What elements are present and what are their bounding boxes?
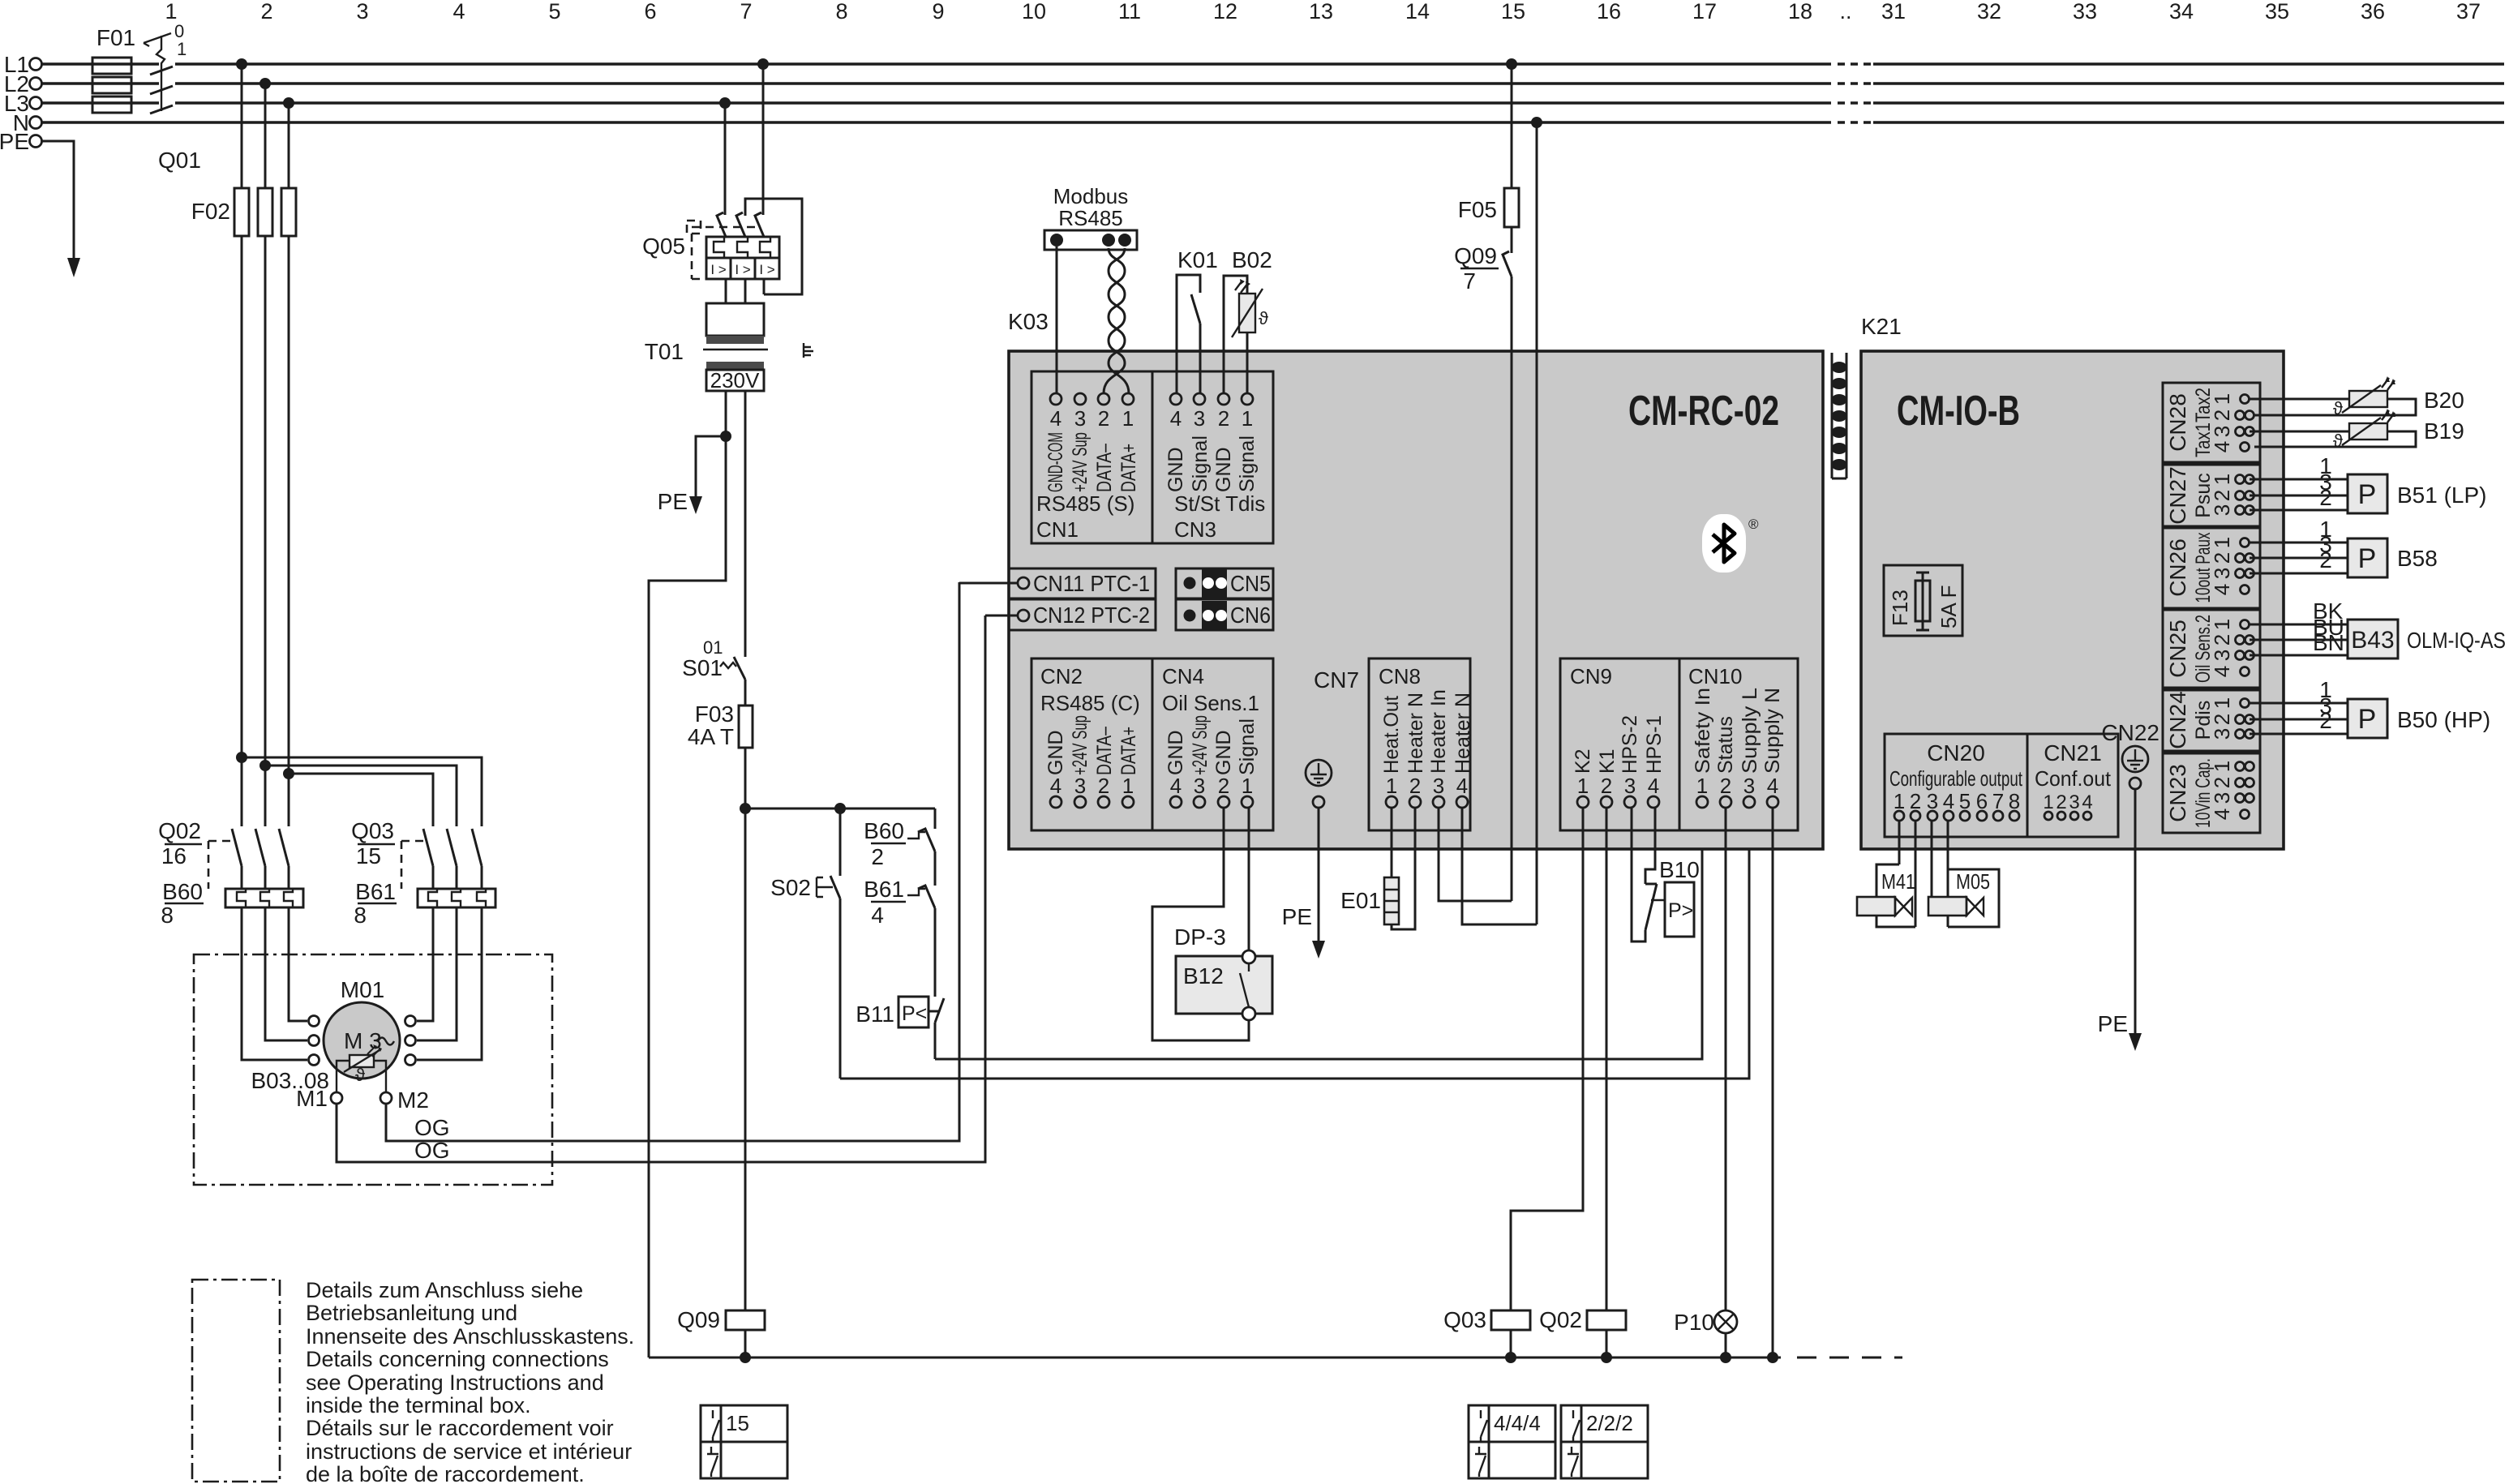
node control junction bbox=[740, 803, 935, 814]
svg-text:Conf.out: Conf.out bbox=[2035, 766, 2112, 791]
dash-dot enclosure around motor bbox=[194, 954, 552, 1185]
svg-text:Supply L: Supply L bbox=[1739, 688, 1761, 774]
svg-text:inside the terminal box.: inside the terminal box. bbox=[306, 1393, 531, 1418]
svg-text:OG: OG bbox=[414, 1138, 450, 1163]
svg-text:M1: M1 bbox=[296, 1086, 328, 1111]
svg-text:GND-COM: GND-COM bbox=[1044, 432, 1067, 492]
svg-text:3: 3 bbox=[1743, 774, 1755, 798]
svg-text:CN28: CN28 bbox=[2165, 393, 2190, 452]
svg-text:Q03: Q03 bbox=[1443, 1307, 1486, 1332]
contactor Q02 main contacts bbox=[158, 818, 289, 889]
svg-text:F03: F03 bbox=[695, 701, 734, 727]
svg-text:35: 35 bbox=[2265, 0, 2289, 24]
svg-text:BN: BN bbox=[2313, 630, 2344, 655]
svg-text:3: 3 bbox=[2210, 728, 2234, 740]
valve M05 bbox=[1928, 821, 1999, 927]
lamp P10 bbox=[1674, 808, 1737, 1363]
svg-text:P<: P< bbox=[902, 1002, 927, 1025]
connector CN20 bbox=[1885, 734, 2027, 837]
svg-text:DATA–: DATA– bbox=[1093, 727, 1116, 775]
svg-text:2/2/2: 2/2/2 bbox=[1586, 1411, 1633, 1435]
svg-text:GND: GND bbox=[1044, 730, 1067, 775]
svg-text:1: 1 bbox=[2043, 791, 2053, 813]
svg-text:Signal: Signal bbox=[1236, 435, 1259, 492]
svg-text:P>: P> bbox=[1668, 899, 1693, 922]
svg-text:CN27: CN27 bbox=[2165, 466, 2190, 525]
svg-text:OLM-IQ-AS: OLM-IQ-AS bbox=[2407, 628, 2506, 653]
svg-text:6: 6 bbox=[644, 0, 656, 24]
svg-text:4: 4 bbox=[2210, 584, 2234, 595]
svg-text:4: 4 bbox=[1767, 774, 1778, 798]
wire PE stub with earth arrow bbox=[42, 141, 80, 277]
svg-text:2: 2 bbox=[2056, 791, 2066, 813]
svg-text:RS485 (S): RS485 (S) bbox=[1036, 491, 1134, 516]
connector CN28 bbox=[2163, 383, 2260, 462]
svg-text:1: 1 bbox=[2210, 474, 2234, 485]
svg-text:34: 34 bbox=[2169, 0, 2194, 24]
svg-text:CM-IO-B: CM-IO-B bbox=[1897, 388, 2020, 435]
svg-text:HPS-2: HPS-2 bbox=[1619, 715, 1641, 774]
svg-text:2: 2 bbox=[1098, 406, 1109, 431]
svg-text:Q09: Q09 bbox=[677, 1307, 720, 1332]
aux contact table Q02 bbox=[1561, 1405, 1648, 1478]
svg-text:2: 2 bbox=[2210, 777, 2234, 788]
svg-text:+24V Sup: +24V Sup bbox=[1189, 715, 1212, 775]
wire S02 to Supply L bbox=[840, 808, 1749, 1079]
svg-text:+24V Sup: +24V Sup bbox=[1069, 715, 1092, 775]
svg-text:F02: F02 bbox=[191, 199, 230, 224]
svg-text:2: 2 bbox=[1218, 774, 1229, 798]
svg-text:1: 1 bbox=[1577, 774, 1589, 798]
node L1 tap to Q05 bbox=[757, 58, 769, 215]
contact B60/2 bbox=[864, 808, 935, 886]
svg-text:15: 15 bbox=[356, 843, 381, 869]
svg-text:4: 4 bbox=[1050, 406, 1061, 431]
svg-text:DATA+: DATA+ bbox=[1117, 727, 1140, 775]
contact B61/4 bbox=[864, 877, 935, 997]
svg-text:GND: GND bbox=[1212, 730, 1235, 775]
sensor B43 OLM-IQ-AS bbox=[2250, 598, 2506, 658]
svg-text:33: 33 bbox=[2073, 0, 2097, 24]
wire OG (M2 to CN11) bbox=[386, 582, 959, 1141]
svg-text:11: 11 bbox=[1118, 0, 1141, 24]
wire Modbus pin to CN1-4 bbox=[1056, 247, 1058, 393]
sensor B20 bbox=[2250, 376, 2464, 418]
svg-text:2: 2 bbox=[2319, 708, 2332, 733]
connector CN22 earth bbox=[2101, 720, 2159, 789]
svg-text:2: 2 bbox=[2210, 410, 2234, 421]
svg-text:GND: GND bbox=[1164, 447, 1187, 492]
jumper CN5 bbox=[1176, 568, 1273, 629]
bottom control rail bbox=[649, 1357, 1902, 1359]
node L2 tap to F02 bbox=[259, 78, 271, 188]
svg-text:18: 18 bbox=[1788, 0, 1812, 24]
svg-text:Betriebsanleitung und: Betriebsanleitung und bbox=[306, 1301, 517, 1325]
svg-text:B61: B61 bbox=[355, 879, 396, 904]
wire CN7 to PE bbox=[1282, 808, 1325, 959]
connector CN21 bbox=[2027, 734, 2118, 837]
svg-text:CN1: CN1 bbox=[1036, 517, 1079, 542]
svg-text:4: 4 bbox=[1170, 774, 1182, 798]
svg-text:ϑ: ϑ bbox=[2333, 431, 2343, 451]
aux contact table Q09 bbox=[701, 1405, 787, 1478]
svg-text:P: P bbox=[2358, 479, 2377, 510]
svg-text:I >: I > bbox=[710, 262, 726, 277]
wire Q02 to motor terminals bbox=[242, 907, 307, 1060]
svg-text:1: 1 bbox=[165, 0, 177, 24]
svg-text:B12: B12 bbox=[1183, 963, 1224, 989]
svg-text:32: 32 bbox=[1977, 0, 2001, 24]
svg-text:3: 3 bbox=[1194, 774, 1205, 798]
terminal L1 bbox=[4, 52, 42, 77]
svg-text:Details concerning connections: Details concerning connections bbox=[306, 1347, 609, 1371]
svg-text:3: 3 bbox=[2210, 792, 2234, 804]
ribbon cable K21 bbox=[1832, 314, 1902, 478]
svg-text:K03: K03 bbox=[1008, 309, 1049, 334]
svg-text:instructions de service et int: instructions de service et intérieur bbox=[306, 1439, 632, 1464]
svg-text:6: 6 bbox=[1976, 789, 1988, 813]
overload B61 (motor) bbox=[354, 879, 495, 928]
svg-text:8: 8 bbox=[161, 903, 174, 928]
svg-text:1: 1 bbox=[2210, 393, 2234, 405]
svg-text:P10: P10 bbox=[1674, 1310, 1714, 1335]
connector CN1 / CN3 bbox=[1031, 371, 1273, 543]
svg-text:K1: K1 bbox=[1596, 748, 1619, 774]
svg-text:DATA+: DATA+ bbox=[1117, 444, 1140, 492]
svg-text:F01: F01 bbox=[96, 25, 135, 50]
svg-text:K21: K21 bbox=[1861, 314, 1902, 339]
svg-text:2: 2 bbox=[2319, 485, 2332, 510]
contactor Q03 main contacts bbox=[351, 818, 482, 889]
svg-text:CN26: CN26 bbox=[2165, 538, 2190, 597]
svg-text:13: 13 bbox=[1309, 0, 1333, 24]
svg-text:4: 4 bbox=[1050, 774, 1061, 798]
terminal PE bbox=[0, 129, 42, 154]
svg-text:14: 14 bbox=[1405, 0, 1430, 24]
svg-text:see Operating Instructions and: see Operating Instructions and bbox=[306, 1370, 604, 1395]
svg-text:GND: GND bbox=[1164, 730, 1187, 775]
svg-text:3: 3 bbox=[1074, 406, 1086, 431]
thermistor B03..08 inside motor bbox=[251, 1044, 386, 1093]
svg-text:B43: B43 bbox=[2351, 627, 2394, 654]
svg-text:4: 4 bbox=[1456, 774, 1468, 798]
svg-text:7: 7 bbox=[1463, 268, 1476, 294]
connector CN24 bbox=[2163, 690, 2260, 751]
connector CN25 bbox=[2163, 610, 2260, 688]
svg-text:CN9: CN9 bbox=[1570, 664, 1612, 688]
svg-text:ϑ: ϑ bbox=[355, 1065, 365, 1085]
svg-text:1: 1 bbox=[1386, 774, 1397, 798]
fuse F05 bbox=[1458, 188, 1519, 253]
svg-text:2: 2 bbox=[1601, 774, 1612, 798]
svg-text:8: 8 bbox=[835, 0, 847, 24]
svg-text:Status: Status bbox=[1714, 716, 1737, 774]
contact K01 bbox=[1177, 247, 1218, 393]
svg-text:4: 4 bbox=[2082, 791, 2092, 813]
svg-text:3: 3 bbox=[2069, 791, 2079, 813]
terminal N bbox=[13, 110, 42, 135]
node L3 tap to Q05 bbox=[719, 97, 731, 215]
svg-text:I >: I > bbox=[735, 262, 750, 277]
connector CN12 PTC-2 bbox=[985, 599, 1156, 630]
wire K2 to Q03 coil bbox=[1511, 808, 1583, 1310]
switch S02 bbox=[770, 808, 840, 1079]
svg-text:2: 2 bbox=[2210, 490, 2234, 501]
connector CN27 bbox=[2163, 465, 2260, 526]
fuse F02 (3x) bbox=[191, 188, 296, 826]
wire CN22 to PE bbox=[2098, 789, 2142, 1051]
svg-text:F13: F13 bbox=[1888, 590, 1912, 626]
svg-text:B50 (HP): B50 (HP) bbox=[2397, 707, 2490, 732]
svg-text:1: 1 bbox=[1696, 774, 1708, 798]
module CM-IO-B bbox=[1861, 351, 2284, 849]
svg-text:36: 36 bbox=[2361, 0, 2385, 24]
svg-text:CN22: CN22 bbox=[2101, 720, 2159, 745]
svg-text:B51 (LP): B51 (LP) bbox=[2397, 483, 2487, 508]
svg-text:17: 17 bbox=[1692, 0, 1717, 24]
svg-text:1: 1 bbox=[2210, 537, 2234, 548]
wire L2 branch to Q03 pole2 bbox=[259, 760, 457, 826]
svg-text:Q01: Q01 bbox=[158, 148, 201, 173]
svg-text:3: 3 bbox=[2210, 650, 2234, 661]
connector CN11 PTC-1 bbox=[959, 568, 1156, 598]
svg-text:CN24: CN24 bbox=[2165, 691, 2190, 749]
connector CN23 bbox=[2163, 753, 2260, 833]
svg-text:1: 1 bbox=[1122, 406, 1134, 431]
terminal L2 bbox=[4, 71, 42, 97]
wire safety chain to Safety In bbox=[935, 808, 1702, 1059]
coil Q09 bbox=[677, 1307, 765, 1363]
svg-text:Supply N: Supply N bbox=[1761, 688, 1784, 774]
svg-text:4: 4 bbox=[1943, 789, 1954, 813]
svg-text:M01: M01 bbox=[341, 977, 384, 1002]
svg-text:4A T: 4A T bbox=[688, 724, 734, 749]
transducer B51 (LP) bbox=[2250, 453, 2487, 513]
svg-text:2: 2 bbox=[1910, 789, 1921, 813]
svg-text:1: 1 bbox=[1242, 774, 1253, 798]
wire Q03 to motor terminals bbox=[417, 907, 482, 1060]
svg-text:P: P bbox=[2358, 543, 2377, 574]
svg-text:15: 15 bbox=[1501, 0, 1525, 24]
svg-text:3: 3 bbox=[1927, 789, 1938, 813]
switch S01 bbox=[682, 637, 745, 680]
svg-text:RS485: RS485 bbox=[1058, 206, 1123, 230]
connector CN9 / CN10 bbox=[1560, 658, 1798, 830]
svg-text:S01: S01 bbox=[682, 655, 723, 680]
svg-text:B58: B58 bbox=[2397, 546, 2438, 571]
column ruler numbers bbox=[165, 0, 2481, 24]
svg-text:2: 2 bbox=[1218, 406, 1229, 431]
svg-text:3: 3 bbox=[2210, 568, 2234, 579]
sensor B19 bbox=[2250, 409, 2464, 451]
svg-text:2: 2 bbox=[260, 0, 272, 24]
svg-text:M 3: M 3 bbox=[344, 1028, 382, 1053]
svg-text:ϑ: ϑ bbox=[1259, 308, 1268, 328]
svg-text:CN20: CN20 bbox=[1927, 740, 1985, 766]
svg-text:4: 4 bbox=[2210, 441, 2234, 452]
pressure switch B10 P> bbox=[1632, 808, 1700, 941]
svg-text:2: 2 bbox=[1409, 774, 1421, 798]
wire K1 to Q02 coil bbox=[1606, 808, 1608, 1310]
Bluetooth logo bbox=[1702, 514, 1759, 573]
fuse F03 4A T bbox=[688, 680, 753, 1310]
svg-text:DATA–: DATA– bbox=[1093, 444, 1116, 492]
terminal L3 bbox=[4, 91, 42, 116]
svg-text:B10: B10 bbox=[1659, 857, 1700, 882]
svg-text:St/St Tdis: St/St Tdis bbox=[1174, 491, 1265, 516]
svg-text:CN4: CN4 bbox=[1162, 664, 1204, 688]
svg-text:Configurable output: Configurable output bbox=[1889, 766, 2023, 791]
wire Supply N to rail bbox=[1767, 808, 1778, 1363]
coil Q03 bbox=[1443, 1307, 1530, 1363]
svg-text:5: 5 bbox=[548, 0, 560, 24]
svg-text:B60: B60 bbox=[162, 879, 203, 904]
svg-text:B20: B20 bbox=[2424, 388, 2464, 413]
svg-text:4: 4 bbox=[1648, 774, 1659, 798]
svg-text:Safety In: Safety In bbox=[1692, 688, 1714, 774]
svg-text:CN8: CN8 bbox=[1379, 664, 1421, 688]
jumper CN6 bbox=[1176, 599, 1273, 630]
wire L1 rail bbox=[42, 62, 2504, 66]
wire L3 rail bbox=[42, 101, 2504, 105]
wire Heater N loop bbox=[1462, 808, 1537, 924]
svg-text:1: 1 bbox=[1122, 774, 1134, 798]
svg-text:4: 4 bbox=[871, 903, 884, 928]
svg-text:9: 9 bbox=[932, 0, 944, 24]
svg-text:4: 4 bbox=[2210, 808, 2234, 820]
svg-text:3: 3 bbox=[1074, 774, 1086, 798]
connector Modbus RS485 bbox=[1044, 184, 1137, 250]
svg-text:230V: 230V bbox=[710, 368, 760, 392]
svg-text:Heater In: Heater In bbox=[1427, 689, 1450, 774]
fuse F01 bbox=[92, 25, 135, 113]
node L1 tap to F05 bbox=[1506, 58, 1517, 188]
svg-text:10: 10 bbox=[1022, 0, 1046, 24]
svg-text:1: 1 bbox=[2210, 697, 2234, 709]
svg-text:HPS-1: HPS-1 bbox=[1643, 715, 1666, 774]
svg-text:S02: S02 bbox=[770, 875, 811, 900]
svg-text:CM-RC-02: CM-RC-02 bbox=[1628, 388, 1779, 435]
svg-text:CN6: CN6 bbox=[1230, 603, 1271, 628]
svg-text:1: 1 bbox=[2210, 619, 2234, 630]
connector CN7 earth bbox=[1306, 667, 1359, 808]
svg-text:GND: GND bbox=[1212, 447, 1235, 492]
svg-text:16: 16 bbox=[161, 843, 187, 869]
svg-text:I >: I > bbox=[759, 262, 774, 277]
node L1 tap to F02 bbox=[236, 58, 247, 188]
svg-text:Details zum Anschluss siehe: Details zum Anschluss siehe bbox=[306, 1278, 583, 1302]
sensor DP-3 B12 bbox=[1152, 808, 1272, 1040]
svg-text:Heat.Out: Heat.Out bbox=[1380, 696, 1403, 774]
svg-text:ϑ: ϑ bbox=[2333, 398, 2343, 418]
svg-text:Q02: Q02 bbox=[1539, 1307, 1582, 1332]
svg-text:12: 12 bbox=[1213, 0, 1237, 24]
node N tap bbox=[1531, 117, 1542, 924]
svg-text:2: 2 bbox=[2210, 714, 2234, 725]
svg-text:de la boîte de raccordement.: de la boîte de raccordement. bbox=[306, 1462, 585, 1484]
svg-text:B02: B02 bbox=[1232, 247, 1272, 272]
svg-text:Heater N: Heater N bbox=[1452, 693, 1474, 774]
svg-text:CN12 PTC-2: CN12 PTC-2 bbox=[1033, 603, 1150, 628]
dash-dot legend box bbox=[192, 1280, 280, 1482]
svg-text:PE: PE bbox=[1282, 904, 1312, 929]
svg-text:..: .. bbox=[1839, 0, 1851, 24]
legend text bbox=[306, 1278, 634, 1484]
svg-text:CN2: CN2 bbox=[1040, 664, 1083, 688]
terminal M1 bbox=[296, 1086, 342, 1111]
connector CN8 bbox=[1369, 658, 1474, 830]
svg-text:3: 3 bbox=[1194, 406, 1205, 431]
svg-text:M41: M41 bbox=[1881, 869, 1915, 894]
aux contact table Q03 bbox=[1469, 1405, 1555, 1478]
svg-text:M05: M05 bbox=[1956, 869, 1990, 894]
breaker Q05 bbox=[642, 199, 802, 303]
fuse F13 5A F bbox=[1884, 565, 1962, 636]
svg-text:PE: PE bbox=[658, 489, 688, 514]
svg-text:3: 3 bbox=[356, 0, 368, 24]
svg-text:Oil Sens.1: Oil Sens.1 bbox=[1162, 691, 1259, 715]
wire secondary right bbox=[744, 391, 747, 657]
svg-text:Q09: Q09 bbox=[1454, 243, 1497, 268]
svg-text:CN10: CN10 bbox=[1688, 664, 1742, 688]
overload B60 (motor) bbox=[161, 879, 303, 928]
svg-text:3: 3 bbox=[1433, 774, 1444, 798]
wire L1 branch to Q03 pole3 bbox=[236, 752, 482, 826]
svg-text:CN23: CN23 bbox=[2165, 764, 2190, 822]
svg-text:1: 1 bbox=[1894, 789, 1905, 813]
svg-text:K2: K2 bbox=[1572, 748, 1594, 774]
svg-text:Q03: Q03 bbox=[351, 818, 394, 843]
node L3 tap to F02 bbox=[283, 97, 294, 188]
wire Heater In loop bbox=[1439, 808, 1512, 901]
svg-text:3: 3 bbox=[2210, 504, 2234, 516]
svg-text:Détails sur le raccordement vo: Détails sur le raccordement voir bbox=[306, 1416, 614, 1440]
svg-text:7: 7 bbox=[1992, 789, 2004, 813]
svg-text:2: 2 bbox=[1098, 774, 1109, 798]
svg-text:CN21: CN21 bbox=[2044, 740, 2102, 766]
svg-text:Q02: Q02 bbox=[158, 818, 201, 843]
svg-text:E01: E01 bbox=[1340, 888, 1381, 913]
node PE tap bbox=[658, 431, 731, 514]
svg-text:4: 4 bbox=[1170, 406, 1182, 431]
svg-text:B19: B19 bbox=[2424, 418, 2464, 444]
svg-text:DP-3: DP-3 bbox=[1174, 924, 1226, 950]
svg-text:3: 3 bbox=[2210, 426, 2234, 437]
svg-text:B60: B60 bbox=[864, 818, 904, 843]
transformer T01 bbox=[645, 303, 813, 392]
svg-text:CN25: CN25 bbox=[2165, 620, 2190, 678]
valve M41 bbox=[1857, 821, 1915, 927]
svg-text:CN7: CN7 bbox=[1314, 667, 1359, 693]
svg-text:2: 2 bbox=[1720, 774, 1731, 798]
connector CN26 bbox=[2163, 528, 2260, 608]
svg-text:CN5: CN5 bbox=[1230, 571, 1271, 596]
svg-text:7: 7 bbox=[740, 0, 752, 24]
svg-text:OG: OG bbox=[414, 1115, 450, 1140]
wire L3 branch to Q03 pole1 bbox=[283, 768, 433, 826]
twisted pair to CN1 bbox=[1104, 248, 1129, 393]
svg-text:5A F: 5A F bbox=[1936, 585, 1961, 628]
wire N rail bbox=[42, 121, 2504, 124]
svg-text:2: 2 bbox=[2210, 552, 2234, 564]
svg-text:2: 2 bbox=[871, 844, 884, 869]
terminal M2 bbox=[380, 1087, 429, 1113]
svg-text:CN3: CN3 bbox=[1174, 517, 1216, 542]
sensor B02 (Tdis) bbox=[1224, 247, 1272, 393]
svg-text:PE: PE bbox=[0, 129, 29, 154]
wire OG (M1 to CN12) bbox=[337, 615, 985, 1163]
wire L2 rail bbox=[42, 82, 2504, 85]
